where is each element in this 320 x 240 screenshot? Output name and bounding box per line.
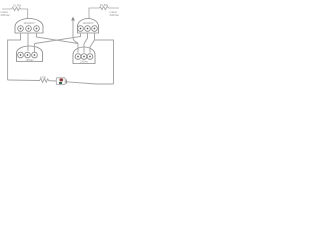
svg-text:1K 5W: 1K 5W — [13, 4, 22, 8]
svg-text:1K 5W: 1K 5W — [100, 3, 109, 7]
svg-text:120Vac: 120Vac — [80, 61, 89, 64]
svg-text:120/240V: 120/240V — [23, 21, 34, 25]
svg-text:120Vac: 120Vac — [26, 59, 35, 62]
svg-text:470R: 470R — [40, 76, 46, 79]
svg-text:230Vac: 230Vac — [110, 13, 120, 17]
svg-text:120/240V: 120/240V — [82, 21, 93, 25]
svg-text:230Vac: 230Vac — [1, 13, 11, 17]
